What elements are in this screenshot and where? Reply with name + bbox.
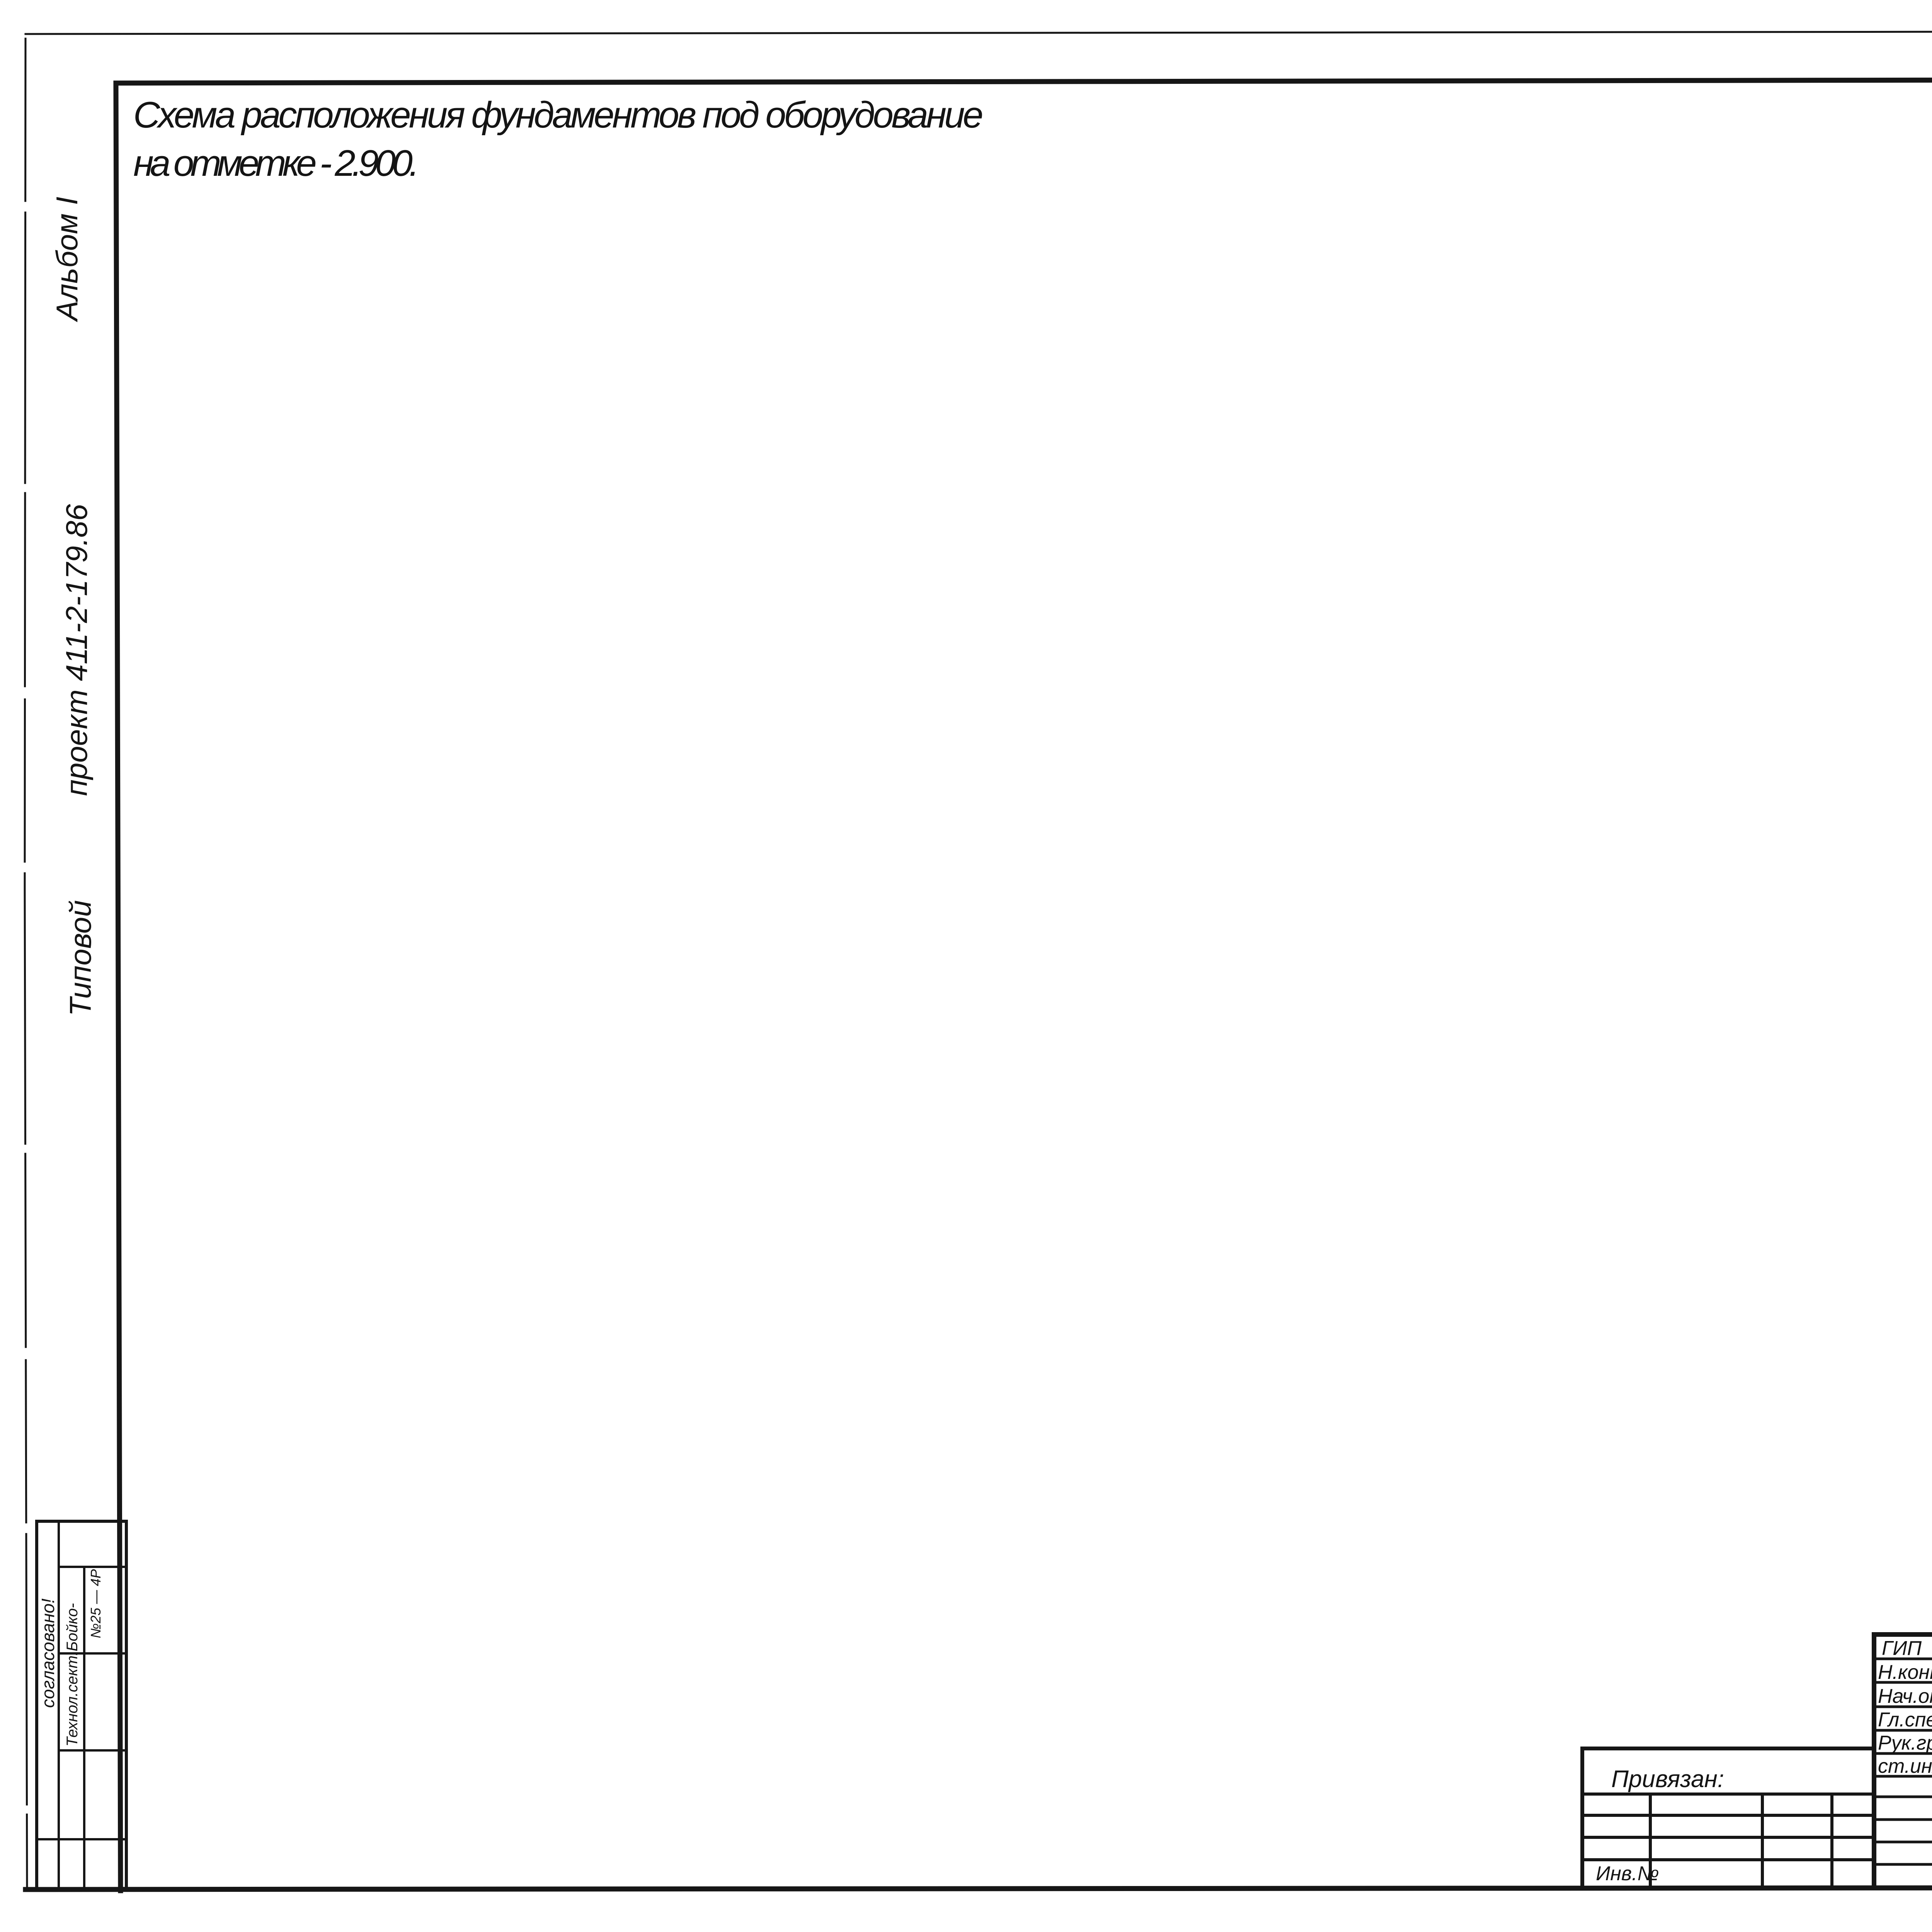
paper edge left xyxy=(25,39,27,1889)
svg-text:ГИП: ГИП xyxy=(1882,1637,1922,1660)
svg-text:Технол.сект.Бойко-: Технол.сект.Бойко- xyxy=(64,1603,81,1747)
svg-text:№25 — 4Р: №25 — 4Р xyxy=(88,1569,104,1638)
staff table texts xyxy=(1878,1637,1932,1777)
main border left xyxy=(116,83,121,1891)
svg-text:Н.контр.: Н.контр. xyxy=(1878,1661,1932,1684)
paper edge top xyxy=(26,31,1932,34)
svg-text:Гл.спец.: Гл.спец. xyxy=(1878,1709,1932,1731)
svg-text:согласовано!: согласовано! xyxy=(38,1599,58,1708)
svg-text:Альбом I: Альбом I xyxy=(50,197,84,322)
stamp annex box xyxy=(37,1521,126,1887)
annex (privyazan) xyxy=(1582,1748,1874,1885)
svg-text:проект 411-2-179.86: проект 411-2-179.86 xyxy=(60,504,94,796)
svg-text:Типовой: Типовой xyxy=(63,900,97,1017)
svg-text:Нач.отд.: Нач.отд. xyxy=(1878,1685,1932,1708)
main border top xyxy=(116,79,1932,83)
main border bottom xyxy=(26,1887,1932,1889)
svg-text:Привязан:: Привязан: xyxy=(1611,1766,1724,1793)
svg-text:Рук.гр.: Рук.гр. xyxy=(1878,1732,1932,1754)
svg-text:Схема расположения фундаментов: Схема расположения фундаментов под обору… xyxy=(133,94,983,136)
svg-text:на отметке - 2.900.: на отметке - 2.900. xyxy=(133,143,419,184)
svg-text:Инв.№: Инв.№ xyxy=(1596,1862,1659,1885)
svg-text:ст.инж.: ст.инж. xyxy=(1878,1755,1932,1777)
staff table grid xyxy=(1874,1659,1932,1864)
main outline xyxy=(1874,1634,1932,1885)
